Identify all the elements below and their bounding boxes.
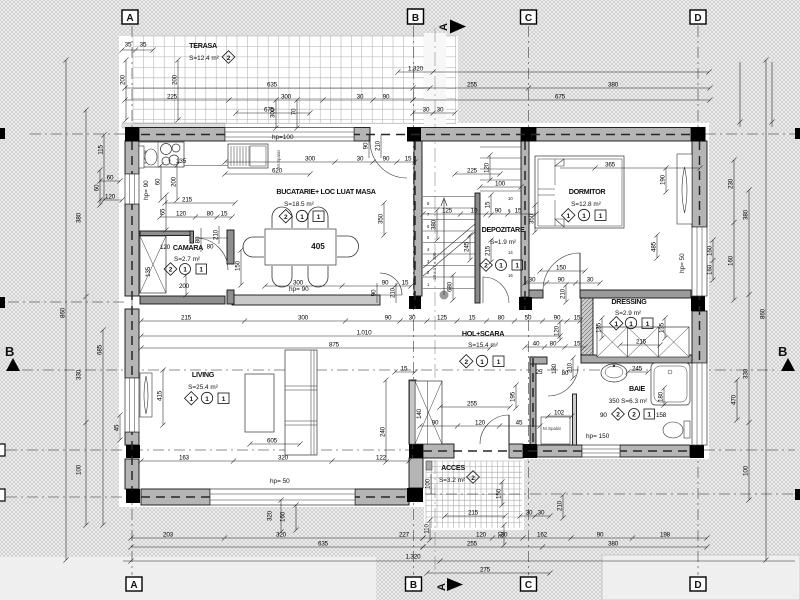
svg-text:30: 30 <box>357 156 364 163</box>
stair break diagonal <box>423 224 475 276</box>
bottom living wall right segment <box>355 489 409 505</box>
top exterior wall segment A-window <box>139 128 225 142</box>
svg-text:158: 158 <box>656 412 667 419</box>
dim row y271 <box>537 268 587 273</box>
svg-text:30: 30 <box>529 277 536 284</box>
section A-A trace line <box>434 28 436 575</box>
dormitor radiator <box>677 154 692 224</box>
column C bottom <box>523 444 537 458</box>
room label ACCES <box>439 463 479 484</box>
axis D vertical <box>697 26 699 575</box>
svg-text:215: 215 <box>468 510 479 517</box>
svg-text:hp= 50: hp= 50 <box>270 478 290 485</box>
dim row y336 <box>138 333 562 338</box>
dormitor-dressing partition right <box>580 290 691 298</box>
svg-text:150: 150 <box>235 260 242 271</box>
right edge axis stub y494 <box>795 489 800 500</box>
svg-text:30: 30 <box>357 94 364 101</box>
dim row y516 <box>517 513 552 518</box>
dim col x665 <box>662 315 667 340</box>
svg-text:195: 195 <box>510 391 517 402</box>
svg-text:115: 115 <box>98 145 105 155</box>
svg-text:215: 215 <box>182 197 193 204</box>
svg-text:S=2.7 m²: S=2.7 m² <box>174 256 200 263</box>
bottom living wall left segment <box>141 489 210 505</box>
dim row y217 <box>157 214 234 219</box>
chairs bottom two <box>272 266 292 287</box>
svg-text:685: 685 <box>97 344 104 355</box>
dormitor bed <box>535 156 624 228</box>
dim col x377 door 90 <box>376 283 378 303</box>
window left wall hp90 <box>125 174 139 204</box>
baie toilet <box>663 421 690 438</box>
svg-text:2: 2 <box>484 263 488 270</box>
axis B horizontal <box>22 369 778 371</box>
svg-text:180: 180 <box>551 363 558 374</box>
svg-text:S=3.2 m²: S=3.2 m² <box>439 477 465 484</box>
svg-text:60: 60 <box>107 175 114 182</box>
dim col x563 <box>560 492 565 520</box>
svg-text:100: 100 <box>76 464 83 475</box>
insulation strip above top wall <box>122 123 225 128</box>
stair walk line with start dot <box>440 291 449 300</box>
svg-text:180: 180 <box>658 391 665 402</box>
dim col x766 <box>763 57 768 562</box>
column B acces bottom <box>407 488 423 502</box>
svg-text:200: 200 <box>120 74 127 85</box>
svg-text:350: 350 <box>529 213 536 224</box>
stairs lower flight treads <box>423 197 475 289</box>
svg-text:1: 1 <box>205 396 209 403</box>
dim col x491 <box>488 237 493 264</box>
dim col x502 <box>499 479 504 507</box>
svg-text:30: 30 <box>498 531 505 538</box>
dim col x535 <box>532 202 537 234</box>
svg-text:380: 380 <box>76 212 83 223</box>
dim row y321 <box>138 318 582 323</box>
svg-text:200: 200 <box>172 74 179 85</box>
column D top <box>691 127 706 142</box>
dining table <box>265 229 336 265</box>
svg-text:45: 45 <box>516 420 523 427</box>
dim col x161 <box>158 162 163 202</box>
svg-text:60: 60 <box>155 178 162 185</box>
svg-text:15: 15 <box>574 315 581 322</box>
svg-text:350 S=6.3 m²: 350 S=6.3 m² <box>609 398 648 405</box>
dim col x566 <box>563 282 568 304</box>
svg-text:90: 90 <box>600 412 607 419</box>
svg-text:160: 160 <box>280 511 287 522</box>
dim col x431 acces <box>430 474 432 494</box>
dim row y50 <box>119 47 155 52</box>
room label BAIE <box>600 384 667 420</box>
dim row y538 <box>128 535 425 540</box>
svg-text:122: 122 <box>376 455 387 462</box>
dim row y372 <box>392 369 417 374</box>
kitchen-living wall centerline extension left <box>8 301 125 303</box>
svg-text:320: 320 <box>267 510 274 521</box>
svg-text:190: 190 <box>660 174 667 185</box>
room label CAMARA <box>160 243 207 275</box>
column C top <box>521 127 536 142</box>
svg-text:120: 120 <box>176 211 187 218</box>
section A-A white corridor through terasa <box>424 33 446 127</box>
svg-text:210: 210 <box>557 500 564 511</box>
dim col x453 <box>450 272 455 302</box>
svg-text:680: 680 <box>447 281 454 292</box>
svg-text:135: 135 <box>659 322 666 333</box>
column B top <box>407 127 421 142</box>
dim col x163 <box>160 367 165 427</box>
svg-text:210: 210 <box>560 288 567 299</box>
top wall centerline extension right <box>705 133 795 135</box>
svg-text:LIVING: LIVING <box>192 370 215 379</box>
dim row y573 below B-C <box>424 570 552 575</box>
hol wardrobe crossed <box>410 381 443 444</box>
svg-text:2: 2 <box>632 412 636 419</box>
svg-text:30: 30 <box>409 315 416 322</box>
top exterior wall pier left of door <box>354 128 370 142</box>
dim row y345 <box>617 342 662 347</box>
dim col x201 <box>200 228 202 252</box>
dim row y547 <box>420 544 709 549</box>
svg-text:B: B <box>410 580 417 591</box>
axis box A bottom <box>126 577 142 591</box>
stair-depozitare wall <box>475 193 480 303</box>
svg-text:275: 275 <box>480 567 491 574</box>
svg-text:225: 225 <box>167 94 178 101</box>
svg-text:380: 380 <box>743 209 750 220</box>
svg-text:45: 45 <box>114 424 121 431</box>
dim col x713 <box>710 237 715 282</box>
svg-text:1: 1 <box>499 263 503 270</box>
window left wall living <box>125 378 139 432</box>
svg-text:M.Spalat: M.Spalat <box>543 426 562 431</box>
svg-text:200: 200 <box>171 176 178 187</box>
dim col x66 <box>63 57 68 562</box>
right exterior wall dormitor <box>692 141 707 227</box>
dressing wardrobe crossed boxes <box>597 327 689 357</box>
wall sink <box>140 151 146 163</box>
svg-text:DEPOZITARE: DEPOZITARE <box>482 225 525 234</box>
dim col x241 <box>238 247 243 287</box>
svg-text:300: 300 <box>293 280 304 287</box>
svg-text:A: A <box>126 13 133 24</box>
B wall centerline dashes upper <box>414 141 416 309</box>
svg-text:TERASA: TERASA <box>189 41 217 50</box>
svg-text:875: 875 <box>329 342 340 349</box>
top exterior wall C to D <box>536 128 691 142</box>
camara shelf crossed <box>140 236 166 293</box>
svg-text:245: 245 <box>464 241 471 252</box>
svg-text:90: 90 <box>385 315 392 322</box>
dim col x740 upper <box>737 62 742 127</box>
svg-text:hp= 90: hp= 90 <box>143 180 150 200</box>
svg-text:120: 120 <box>160 244 171 251</box>
dim col x381 door210 <box>380 135 382 158</box>
svg-text:675: 675 <box>555 94 566 101</box>
svg-text:255: 255 <box>467 401 478 408</box>
dim col x749 <box>746 187 751 502</box>
svg-text:90: 90 <box>363 142 370 149</box>
section mark A top <box>438 20 466 34</box>
svg-text:14: 14 <box>508 250 513 255</box>
svg-text:1: 1 <box>480 359 484 366</box>
dim row y166 <box>560 165 703 170</box>
svg-text:hp= 50: hp= 50 <box>679 253 686 273</box>
svg-text:A: A <box>436 583 448 591</box>
dim row y407 <box>437 404 512 409</box>
dim label 25 <box>536 369 543 376</box>
room label LIVING <box>185 370 229 405</box>
svg-text:B: B <box>412 13 419 24</box>
svg-text:210: 210 <box>567 362 574 373</box>
svg-text:15: 15 <box>574 341 581 348</box>
axis box A top <box>122 10 138 24</box>
column A living <box>126 445 140 458</box>
dim col x664 <box>661 385 666 407</box>
axis letter B left <box>5 344 20 371</box>
right exterior wall dressing <box>692 311 707 363</box>
dim col x281 <box>278 497 283 534</box>
svg-text:15: 15 <box>405 156 412 163</box>
svg-text:S=2.9 m²: S=2.9 m² <box>615 310 641 317</box>
dim col x296 <box>293 502 298 532</box>
dim row y88 <box>122 85 432 90</box>
dim row y560 <box>123 558 795 563</box>
svg-text:860: 860 <box>60 307 67 318</box>
acces left wall vertical <box>409 458 423 488</box>
svg-text:230: 230 <box>728 178 735 189</box>
column B mid (kitchen-living) <box>409 296 421 309</box>
svg-text:405: 405 <box>311 242 325 251</box>
column D bottom <box>690 445 704 458</box>
acces wall stub <box>426 461 432 470</box>
dim row y372 <box>625 369 650 374</box>
svg-text:125: 125 <box>442 208 453 215</box>
top exterior wall B to C <box>420 128 521 142</box>
svg-text:C: C <box>525 580 532 591</box>
acces tile grid <box>426 461 522 528</box>
door depozitare arc <box>483 277 509 303</box>
hol right wall lower (niche) <box>530 357 536 445</box>
svg-text:300: 300 <box>270 107 277 118</box>
svg-text:210: 210 <box>213 229 220 240</box>
svg-text:35: 35 <box>125 42 132 49</box>
living bottom wall centerline extension right <box>425 493 795 495</box>
dim label 80 and 180 near baie door <box>551 363 569 377</box>
svg-text:255: 255 <box>467 541 478 548</box>
svg-text:90: 90 <box>432 420 439 427</box>
svg-text:D: D <box>694 580 701 591</box>
svg-text:15: 15 <box>221 211 228 218</box>
svg-text:hp= 150: hp= 150 <box>586 433 610 440</box>
dim row y283 <box>522 280 602 285</box>
svg-text:30: 30 <box>526 510 533 517</box>
door camara arc <box>196 238 228 270</box>
dim col x737 <box>734 377 739 422</box>
dim row y516 <box>442 513 507 518</box>
dressing-baie wall <box>581 355 692 363</box>
svg-text:CAMARA: CAMARA <box>173 243 203 252</box>
svg-text:1: 1 <box>317 214 321 221</box>
svg-text:140: 140 <box>416 408 423 419</box>
door baie arc <box>548 366 578 396</box>
chairs top two <box>272 207 292 228</box>
column D mid <box>691 296 705 311</box>
dim col x126 <box>123 57 128 122</box>
dim col x734 <box>731 157 736 302</box>
window bottom living hp50 <box>210 489 355 505</box>
svg-text:90: 90 <box>597 532 604 539</box>
C wall depozitare-dormitor vertical <box>521 141 529 297</box>
svg-text:225: 225 <box>467 168 478 175</box>
svg-text:605: 605 <box>267 438 278 445</box>
door dormitor arc <box>543 253 580 290</box>
svg-text:90: 90 <box>495 208 502 215</box>
svg-text:100: 100 <box>495 181 506 188</box>
left edge open box y495 <box>0 489 5 501</box>
left exterior wall living upper <box>125 309 139 378</box>
kitchen-living parapet wall <box>232 295 380 305</box>
axis letter B right <box>778 344 795 371</box>
svg-text:1.320: 1.320 <box>408 66 424 73</box>
svg-text:110: 110 <box>424 524 431 534</box>
svg-text:320: 320 <box>278 455 289 462</box>
axis box D top <box>690 10 706 24</box>
bottom living wall centerline dashes <box>141 496 409 498</box>
svg-text:380: 380 <box>608 82 619 89</box>
column A top <box>125 127 139 142</box>
svg-text:162: 162 <box>537 532 548 539</box>
right edge axis stub y134 <box>795 128 800 139</box>
svg-text:1: 1 <box>614 321 618 328</box>
svg-text:203: 203 <box>163 532 174 539</box>
window right wall baie <box>692 363 707 445</box>
svg-text:90: 90 <box>371 289 378 296</box>
svg-text:350: 350 <box>378 213 385 224</box>
blanket fold corners <box>555 159 564 227</box>
svg-text:1: 1 <box>183 267 187 274</box>
axis A vertical <box>131 26 133 575</box>
svg-text:2: 2 <box>464 359 468 366</box>
dim row y214 <box>420 211 538 216</box>
kitchen counter <box>139 142 184 167</box>
baie wall centerline extension left through living <box>6 449 421 451</box>
dim col x491 <box>488 192 493 217</box>
svg-text:30: 30 <box>538 510 545 517</box>
svg-text:150: 150 <box>556 265 567 272</box>
dim row y72 <box>395 69 711 74</box>
svg-text:255: 255 <box>467 82 478 89</box>
dim row y100 <box>410 97 712 102</box>
svg-text:70: 70 <box>291 108 298 115</box>
dim col x666 <box>663 165 668 194</box>
C wall centerline dashes <box>524 141 526 310</box>
dim row y162 <box>222 159 417 164</box>
kitchen radiator <box>228 144 268 168</box>
svg-text:2: 2 <box>227 55 231 62</box>
niche wall centerline dashes <box>532 358 534 445</box>
top wall centerline extension left <box>30 133 125 135</box>
dim col x86 <box>83 107 88 527</box>
svg-text:1: 1 <box>199 267 203 274</box>
stove burners <box>161 144 172 155</box>
acces porch white floor <box>424 456 524 530</box>
svg-text:227: 227 <box>399 532 410 539</box>
svg-text:M.Spalat: M.Spalat <box>276 149 281 168</box>
room label DRESSING <box>610 297 653 330</box>
column C mid <box>519 297 532 310</box>
axis box C bottom <box>521 577 537 591</box>
svg-text:300: 300 <box>298 315 309 322</box>
svg-text:135: 135 <box>145 266 152 277</box>
svg-text:198: 198 <box>660 532 671 539</box>
axis box C top <box>521 10 537 24</box>
door acces entry arc <box>480 415 509 444</box>
baie bottom wall right segment <box>620 445 690 457</box>
living sofa <box>245 374 274 432</box>
camara right wall lower stub <box>227 290 234 304</box>
headboard lines <box>538 159 555 226</box>
svg-text:15: 15 <box>402 280 409 287</box>
left edge axis stub y302 <box>0 297 5 308</box>
svg-text:10: 10 <box>471 208 478 215</box>
hol bottom wall left of door <box>423 444 454 458</box>
svg-text:160: 160 <box>728 255 735 266</box>
terasa tile grid <box>133 36 456 123</box>
light plain rect bottom-left <box>0 557 376 600</box>
svg-text:B: B <box>778 344 787 359</box>
svg-text:2: 2 <box>471 475 475 482</box>
svg-text:215: 215 <box>485 245 492 256</box>
svg-text:90: 90 <box>383 156 390 163</box>
dim col x386 <box>383 377 388 464</box>
svg-text:120: 120 <box>476 532 487 539</box>
svg-text:120: 120 <box>475 420 486 427</box>
dim col x560 <box>557 319 562 342</box>
svg-text:135: 135 <box>596 322 603 333</box>
column A bottom corner <box>126 489 140 503</box>
dim row y181 <box>97 178 122 183</box>
svg-text:1: 1 <box>647 412 651 419</box>
svg-text:90: 90 <box>383 94 390 101</box>
washing machine <box>541 417 570 444</box>
hol niche flange <box>530 357 547 364</box>
svg-text:150: 150 <box>496 488 503 499</box>
svg-text:100: 100 <box>743 465 750 476</box>
dim row y88 <box>410 85 712 90</box>
svg-text:60: 60 <box>94 184 101 191</box>
column B bottom <box>409 444 423 458</box>
baie sink <box>601 364 627 382</box>
dim row y348 <box>138 345 492 350</box>
svg-text:30: 30 <box>587 277 594 284</box>
svg-text:215: 215 <box>636 339 647 346</box>
svg-text:80: 80 <box>498 315 505 322</box>
svg-text:A: A <box>438 23 450 31</box>
svg-text:2: 2 <box>616 412 620 419</box>
left wall centerline dashes <box>131 141 133 489</box>
svg-text:300: 300 <box>305 156 316 163</box>
window right wall dormitor hp50 <box>692 227 707 296</box>
svg-text:90: 90 <box>558 277 565 284</box>
dim col x657 <box>654 232 659 260</box>
chair right <box>337 236 359 257</box>
chair left <box>243 237 264 257</box>
dim col x396 door 210 <box>395 283 397 303</box>
svg-text:163: 163 <box>179 455 190 462</box>
